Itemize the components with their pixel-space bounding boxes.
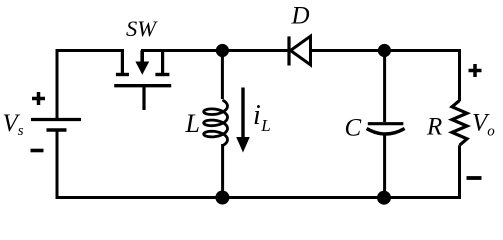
- diode D cathode bar: [287, 36, 290, 65]
- capacitor C top plate: [368, 122, 404, 125]
- inductor L coil: [204, 101, 228, 146]
- wire: left vertical (battery - down to bottom rail): [56, 130, 59, 199]
- transistor SW gate lead: [142, 87, 145, 110]
- battery plus sign: [32, 92, 45, 105]
- capacitor C bottom curved plate: [367, 129, 405, 135]
- wire: node B down to capacitor: [383, 51, 386, 123]
- transistor SW left stub: [121, 49, 124, 73]
- wire: inductor bottom to bottom rail: [221, 144, 224, 198]
- node A junction dot: [216, 44, 229, 57]
- wire: capacitor bottom to bottom rail: [383, 136, 386, 198]
- wire: node A down to inductor: [221, 51, 224, 100]
- svg-text:C: C: [345, 115, 362, 142]
- transistor SW right foot: [155, 73, 169, 76]
- wire: top rail left segment (Vs to SW drain): [57, 49, 124, 52]
- transistor SW body arrow head: [135, 62, 149, 75]
- battery Vs bottom plate: [47, 128, 67, 132]
- bottom node dot B: [377, 191, 391, 205]
- transistor SW body arrow shaft: [140, 51, 144, 64]
- svg-text:SW: SW: [126, 16, 158, 41]
- svg-text:Vs: Vs: [3, 110, 24, 139]
- battery Vs top plate: [31, 118, 81, 121]
- svg-text:L: L: [185, 109, 200, 138]
- svg-text:D: D: [291, 3, 310, 30]
- output plus sign: [469, 64, 482, 77]
- wire: top rail right segment (SW source to diode cathode bar): [141, 49, 288, 52]
- transistor SW right stub: [161, 49, 164, 73]
- current arrow iL head: [236, 137, 250, 153]
- output minus sign: [467, 176, 482, 180]
- diode D triangle: [291, 36, 311, 65]
- svg-text:R: R: [426, 114, 442, 141]
- wire: left vertical (top rail down to battery +): [56, 49, 59, 120]
- transistor SW gate bar: [114, 84, 171, 87]
- wire: right vertical top (corner to resistor): [458, 49, 461, 101]
- node B junction dot: [378, 44, 391, 57]
- resistor R zigzag: [452, 101, 467, 146]
- svg-text:iL: iL: [253, 100, 271, 135]
- wire: top rail from diode anode to top-right corner: [311, 49, 462, 52]
- bottom node dot A: [215, 191, 229, 205]
- wire: bottom rail: [56, 196, 462, 199]
- svg-text:Vo: Vo: [472, 110, 495, 140]
- transistor SW left foot: [116, 73, 129, 76]
- battery minus sign: [31, 149, 44, 153]
- current arrow iL shaft: [241, 88, 244, 140]
- wire: right vertical bottom (resistor to bottom rail): [458, 145, 461, 199]
